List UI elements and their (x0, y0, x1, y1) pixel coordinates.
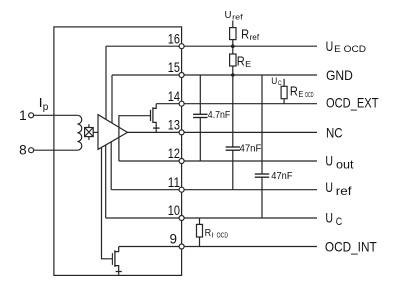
svg-text:R: R (241, 27, 249, 41)
svg-text:I: I (212, 232, 214, 239)
svg-text:U: U (271, 76, 277, 86)
svg-text:ref: ref (250, 32, 260, 42)
svg-text:OCD: OCD (305, 92, 314, 99)
svg-text:16: 16 (168, 31, 180, 46)
svg-text:OCD_INT: OCD_INT (325, 239, 377, 255)
svg-text:GND: GND (326, 67, 353, 83)
svg-text:U: U (325, 152, 333, 168)
svg-text:OCD: OCD (217, 232, 229, 239)
svg-text:R: R (290, 85, 298, 99)
svg-text:14: 14 (168, 89, 181, 104)
svg-text:R: R (205, 227, 212, 239)
svg-text:ref: ref (232, 13, 244, 22)
svg-text:OCD_EXT: OCD_EXT (326, 95, 379, 111)
svg-text:12: 12 (168, 146, 180, 161)
svg-text:47nF: 47nF (271, 171, 292, 182)
svg-text:out: out (336, 158, 354, 172)
svg-text:U: U (325, 210, 333, 226)
svg-text:47nF: 47nF (240, 144, 262, 155)
svg-text:13: 13 (168, 118, 180, 133)
svg-text:C: C (336, 216, 342, 228)
svg-text:1: 1 (19, 108, 27, 123)
svg-text:p: p (43, 102, 49, 113)
svg-text:4.7nF: 4.7nF (208, 110, 231, 121)
svg-text:U: U (326, 38, 334, 54)
svg-text:E OCD: E OCD (334, 44, 366, 55)
svg-text:C: C (278, 80, 282, 87)
svg-text:E: E (245, 59, 251, 69)
svg-text:NC: NC (326, 125, 343, 141)
svg-text:8: 8 (19, 143, 27, 158)
svg-text:U: U (225, 9, 232, 21)
svg-text:ref: ref (336, 184, 352, 198)
svg-text:U: U (325, 179, 333, 195)
svg-text:11: 11 (168, 175, 180, 190)
svg-text:15: 15 (168, 60, 180, 75)
svg-text:10: 10 (168, 203, 180, 218)
svg-text:9: 9 (169, 232, 177, 247)
svg-text:R: R (237, 54, 245, 68)
svg-text:E: E (298, 89, 303, 99)
